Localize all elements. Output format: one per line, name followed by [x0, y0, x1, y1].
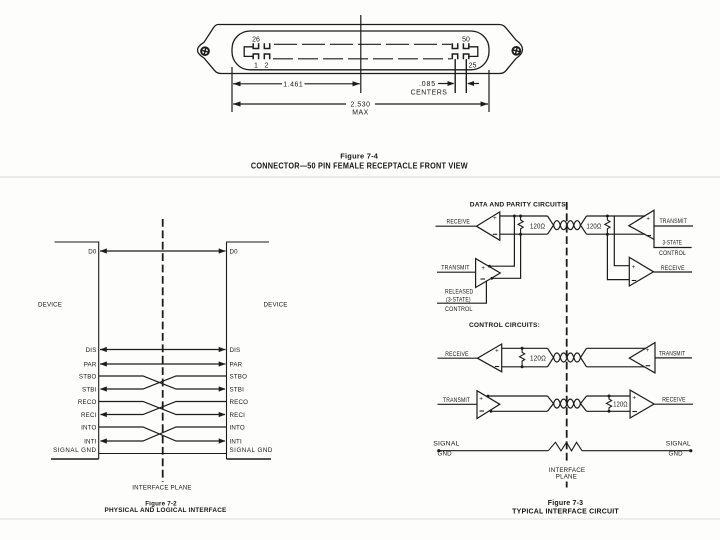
wire INTO right to INTI left	[100, 427, 227, 444]
node dot F	[521, 347, 524, 350]
gnd terminal dot right	[689, 449, 692, 452]
dashed centerline bottom row	[273, 58, 451, 60]
svg-text:+: +	[479, 395, 483, 402]
svg-text:DEVICE: DEVICE	[38, 302, 62, 309]
device box left	[51, 242, 99, 459]
U3 minus	[647, 235, 652, 237]
svg-text:DIS: DIS	[86, 347, 97, 354]
svg-text:RECEIVE: RECEIVE	[662, 396, 686, 403]
dimension .085 CENTERS	[438, 81, 479, 86]
svg-text:TYPICAL INTERFACE CIRCUIT: TYPICAL INTERFACE CIRCUIT	[512, 509, 619, 516]
svg-text:Figure 7-3: Figure 7-3	[548, 500, 583, 507]
op-amp U7 transmit left row2	[438, 391, 500, 419]
left pin bracket	[244, 47, 253, 57]
svg-text:+: +	[495, 347, 499, 354]
svg-text:INTERFACE PLANE: INTERFACE PLANE	[132, 485, 191, 492]
svg-text:INTI: INTI	[84, 438, 97, 445]
screw hole right	[511, 46, 521, 56]
scan artifact lines (decorative)	[0, 176, 720, 178]
U5 minus	[495, 366, 500, 368]
svg-text:RECEIVE: RECEIVE	[445, 351, 468, 358]
node dot H	[608, 395, 611, 398]
svg-text:INTO: INTO	[81, 424, 96, 431]
svg-text:RECO: RECO	[230, 399, 249, 406]
screw hole left	[200, 46, 210, 56]
svg-text:+: +	[632, 394, 636, 401]
signal ground wire	[99, 453, 227, 455]
svg-text:50: 50	[462, 37, 470, 44]
svg-text:PLANE: PLANE	[556, 473, 577, 480]
left signal labels	[53, 248, 97, 453]
node dot A	[513, 215, 516, 218]
device box right	[227, 242, 272, 459]
svg-text:D0: D0	[230, 248, 239, 255]
connector insert (inner D-shell)	[232, 31, 489, 70]
U2 control wire	[437, 281, 486, 303]
U7 minus	[480, 410, 485, 412]
svg-text:TRANSMIT: TRANSMIT	[659, 350, 685, 357]
U6 minus	[646, 365, 651, 367]
connector shell outline	[198, 25, 523, 74]
right pin bracket	[469, 47, 478, 57]
svg-text:SIGNAL GND: SIGNAL GND	[53, 447, 96, 454]
svg-text:STBO: STBO	[230, 373, 248, 380]
pin 50 contact	[452, 43, 457, 48]
U4 minus	[632, 280, 637, 282]
wire STBO right to STBI left	[100, 376, 227, 392]
svg-text:D0: D0	[88, 248, 97, 255]
node dot I	[608, 410, 611, 413]
svg-text:1.461: 1.461	[283, 81, 303, 88]
pin 24 contact	[452, 54, 457, 59]
op-amp U6 transmit right row1	[629, 343, 692, 373]
op-amp U3 transmit right	[629, 210, 693, 239]
op-amp U5 receive left row1	[438, 344, 502, 372]
wire RECO left to RECI right	[99, 402, 226, 418]
dimension 2.530 MAX	[233, 101, 488, 106]
svg-text:+: +	[493, 215, 497, 222]
gnd terminal dot left	[437, 449, 440, 452]
dashed centerline top row	[274, 43, 451, 45]
signal ground wire fig3	[439, 442, 691, 451]
pin 26 contact	[253, 43, 258, 48]
node dot B	[519, 215, 522, 218]
pin 2 contact	[264, 54, 269, 59]
svg-text:TRANSMIT: TRANSMIT	[660, 218, 688, 225]
row1 wire top right	[587, 347, 646, 349]
svg-text:120Ω: 120Ω	[530, 224, 545, 231]
svg-text:.085: .085	[419, 81, 436, 88]
right signal labels	[230, 248, 273, 453]
svg-text:(3-STATE): (3-STATE)	[446, 297, 471, 304]
pin 1 contact	[253, 54, 258, 59]
svg-text:RECI: RECI	[230, 412, 246, 419]
wire pair left bottom	[500, 233, 548, 235]
pin extension line b	[465, 59, 467, 93]
wire to U4 minus input	[607, 234, 629, 279]
signal DIS wire	[100, 347, 226, 352]
svg-text:DATA AND PARITY CIRCUITS:: DATA AND PARITY CIRCUITS:	[470, 202, 569, 209]
svg-text:120Ω: 120Ω	[613, 402, 627, 409]
svg-text:2.530: 2.530	[351, 102, 371, 109]
svg-text:RECO: RECO	[78, 399, 97, 406]
svg-text:SIGNAL GND: SIGNAL GND	[230, 447, 273, 454]
twisted pair TP1	[548, 216, 587, 234]
U1 minus	[493, 233, 498, 235]
node dot C	[519, 233, 522, 236]
pin 27 contact	[264, 43, 269, 48]
svg-text:RECI: RECI	[81, 412, 97, 419]
wire INTO left to INTI right	[99, 427, 226, 444]
svg-text:RECEIVE: RECEIVE	[661, 265, 685, 272]
U2 minus	[481, 278, 486, 280]
wire pair right top	[587, 215, 646, 217]
svg-text:CONNECTOR—50 PIN FEMALE RECEPT: CONNECTOR—50 PIN FEMALE RECEPTACLE FRONT…	[251, 161, 468, 170]
svg-text:120Ω: 120Ω	[530, 355, 546, 362]
U7 output wire upper	[487, 395, 548, 398]
svg-text:+: +	[481, 265, 485, 272]
svg-text:STBI: STBI	[82, 386, 97, 393]
svg-text:SIGNAL: SIGNAL	[433, 441, 460, 448]
wire STBO left to STBI right	[99, 376, 226, 392]
node dot G	[521, 365, 524, 368]
U8 minus	[632, 411, 637, 413]
wire to U4 plus input	[614, 216, 629, 266]
svg-text:RELEASED: RELEASED	[445, 289, 474, 296]
signal D0 wire	[100, 248, 226, 253]
svg-text:120Ω: 120Ω	[587, 224, 602, 231]
svg-text:INTI: INTI	[230, 438, 243, 445]
svg-text:DEVICE: DEVICE	[264, 302, 288, 309]
U2 output wire lower	[491, 234, 521, 279]
wire pair left top	[500, 215, 548, 217]
pin extension line a	[454, 59, 456, 93]
node dot D	[606, 215, 609, 218]
svg-text:1: 1	[254, 63, 258, 70]
op-amp U2 transmit left	[437, 259, 500, 288]
resistor R4 120 ohm	[606, 396, 611, 411]
pin 25 contact	[463, 54, 468, 59]
svg-text:25: 25	[469, 63, 477, 70]
svg-text:STBO: STBO	[79, 373, 97, 380]
extension line right	[488, 70, 490, 112]
row2 wire bottom right	[587, 410, 631, 412]
wire RECO right to RECI left	[100, 402, 227, 418]
resistor R3 120 ohm	[519, 348, 524, 367]
svg-text:PHYSICAL AND LOGICAL INTERFACE: PHYSICAL AND LOGICAL INTERFACE	[105, 507, 228, 514]
svg-text:CONTROL CIRCUITS:: CONTROL CIRCUITS:	[469, 322, 540, 329]
svg-text:GND: GND	[438, 450, 453, 457]
wire pair right bottom	[587, 233, 646, 235]
U7 output wire lower	[490, 410, 548, 413]
row2 wire top right	[587, 395, 631, 397]
node dot E	[606, 233, 609, 236]
op-amp U4 receive right	[629, 257, 692, 286]
svg-text:CONTROL: CONTROL	[659, 250, 686, 257]
interface plane dashed line fig3	[566, 202, 568, 488]
svg-text:TRANSMIT: TRANSMIT	[443, 397, 470, 404]
interface plane dashed line	[162, 219, 164, 482]
row1 wire top	[502, 347, 548, 349]
svg-text:MAX: MAX	[352, 110, 369, 117]
svg-text:Figure 7-4: Figure 7-4	[340, 152, 379, 161]
row1 wire bottom	[502, 366, 548, 368]
svg-text:PAR: PAR	[84, 361, 97, 368]
dimension 1.461	[233, 81, 360, 86]
signal PAR wire	[100, 361, 226, 366]
U2 output wire upper	[488, 216, 514, 268]
vertical centerline	[360, 15, 362, 93]
svg-text:+: +	[632, 264, 636, 271]
twisted pair TP3	[548, 396, 587, 411]
svg-text:+: +	[646, 215, 650, 222]
resistor R2 120 ohm	[605, 216, 610, 234]
svg-text:3-STATE: 3-STATE	[663, 240, 683, 247]
svg-text:+: +	[646, 347, 650, 354]
svg-text:TRANSMIT: TRANSMIT	[441, 264, 469, 271]
pin 50b contact	[463, 43, 468, 48]
op-amp U1 receive left	[436, 212, 500, 240]
svg-text:PAR: PAR	[230, 361, 243, 368]
svg-text:GND: GND	[669, 450, 684, 457]
svg-text:STBI: STBI	[230, 386, 245, 393]
resistor R1 120 ohm	[518, 216, 523, 234]
extension line left	[231, 67, 233, 112]
twisted pair TP2	[548, 348, 587, 367]
svg-text:SIGNAL: SIGNAL	[666, 441, 691, 448]
svg-text:DIS: DIS	[230, 347, 241, 354]
svg-text:CONTROL: CONTROL	[445, 306, 473, 313]
svg-text:RECEIVE: RECEIVE	[447, 218, 471, 225]
svg-text:CENTERS: CENTERS	[411, 90, 448, 97]
svg-text:26: 26	[252, 37, 260, 44]
U3 3-state control wire	[654, 239, 692, 247]
svg-text:INTO: INTO	[230, 424, 245, 431]
op-amp U8 receive right row2	[630, 390, 693, 418]
svg-text:2: 2	[265, 63, 269, 70]
row1 wire bottom right	[587, 366, 645, 368]
